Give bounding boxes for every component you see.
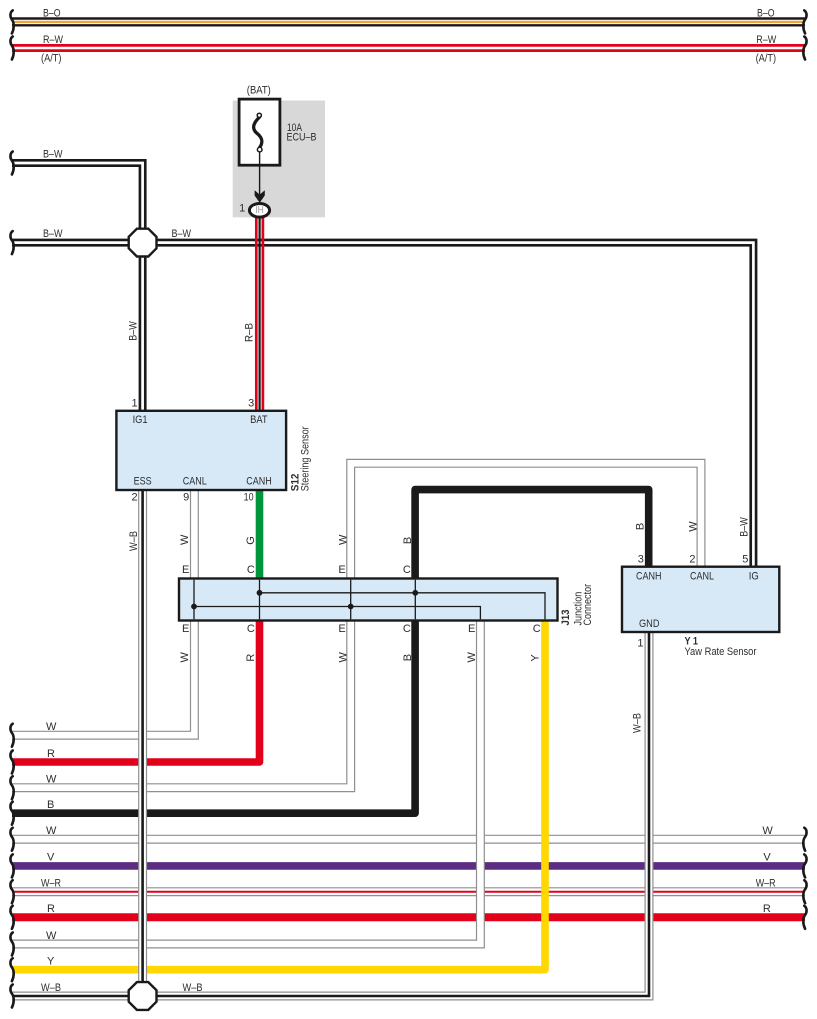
svg-text:W–B: W–B — [128, 531, 140, 551]
junction node (octagon) W-B — [129, 982, 157, 1010]
svg-text:B–W: B–W — [43, 228, 63, 240]
svg-text:B–O: B–O — [43, 7, 61, 19]
svg-text:CANH: CANH — [246, 475, 272, 487]
wire W-B bus to Y1 GND — [12, 631, 649, 996]
svg-text:B: B — [47, 799, 54, 811]
wire R bus 2 (full width) — [12, 913, 805, 921]
svg-text:V: V — [763, 852, 771, 864]
svg-text:3: 3 — [248, 398, 254, 410]
svg-text:10: 10 — [244, 491, 254, 503]
svg-text:R: R — [763, 903, 771, 915]
wire W bus 4 to J13 pin E — [12, 619, 480, 944]
junction node (octagon) B-W — [129, 229, 157, 257]
svg-text:9: 9 — [183, 491, 189, 503]
svg-text:R–W: R–W — [756, 34, 776, 46]
svg-text:C: C — [403, 564, 411, 576]
svg-text:W: W — [46, 825, 57, 837]
svg-text:R: R — [245, 654, 257, 662]
wire B-W main run to Y1 IG — [12, 243, 753, 568]
wire R-B from fuse node IH to S12 BAT — [255, 216, 258, 412]
svg-text:CANH: CANH — [636, 571, 662, 583]
fuse terminal circle top — [257, 113, 261, 117]
svg-text:G: G — [245, 536, 257, 545]
svg-text:Connector: Connector — [582, 584, 594, 626]
svg-text:C: C — [247, 564, 255, 576]
svg-text:(A/T): (A/T) — [41, 52, 62, 64]
svg-text:C: C — [247, 623, 255, 635]
svg-text:(A/T): (A/T) — [756, 52, 777, 64]
svg-text:GND: GND — [639, 618, 660, 630]
svg-text:B–W: B–W — [172, 228, 192, 240]
svg-text:2: 2 — [131, 491, 137, 503]
svg-text:B: B — [635, 523, 647, 530]
svg-text:IH: IH — [255, 205, 264, 216]
wire from fuse to node IH — [259, 152, 261, 196]
node IH oval — [249, 204, 269, 218]
svg-text:E: E — [182, 564, 189, 576]
right break bus group — [803, 828, 806, 851]
svg-text:W: W — [338, 534, 350, 545]
wire W bus 2 through J13 to Y1 CANL — [12, 463, 701, 787]
svg-text:C: C — [533, 623, 541, 635]
svg-text:W: W — [46, 774, 57, 786]
left break B-W upper — [10, 152, 13, 175]
svg-text:W: W — [179, 651, 191, 662]
wire B from J13 pin C to Y1 CANH — [415, 490, 649, 580]
svg-text:W–B: W–B — [183, 982, 203, 994]
left break B-O / R-W — [10, 10, 13, 33]
wire W-R bus (full width) — [12, 887, 805, 896]
svg-text:W–B: W–B — [41, 982, 61, 994]
right break B-O / R-W — [803, 10, 806, 33]
fuse terminal circle bottom — [257, 147, 262, 152]
J13 junction dot C2 — [412, 590, 418, 596]
svg-text:W: W — [762, 825, 773, 837]
svg-text:W: W — [179, 534, 191, 545]
left break bus group — [10, 724, 13, 747]
svg-text:1: 1 — [239, 203, 245, 215]
svg-text:W: W — [466, 651, 478, 662]
svg-text:1: 1 — [131, 398, 137, 410]
svg-text:3: 3 — [638, 553, 644, 565]
svg-text:BAT: BAT — [250, 414, 268, 426]
connector Y1 Yaw Rate Sensor box — [622, 567, 779, 632]
J13 internal pin link E2 — [350, 580, 352, 620]
fuse element S-curve — [254, 117, 262, 147]
J13 internal pin link C2 — [414, 580, 416, 620]
wire B-O bus (top) — [12, 17, 805, 26]
arrow into node IH — [255, 190, 265, 203]
svg-text:1: 1 — [637, 637, 643, 649]
svg-text:B–W: B–W — [739, 517, 751, 537]
svg-text:B–W: B–W — [128, 321, 140, 341]
svg-text:W–R: W–R — [41, 878, 61, 890]
svg-text:CANL: CANL — [690, 571, 714, 583]
gray relay-block panel behind fuse — [233, 101, 325, 218]
svg-text:B–O: B–O — [757, 7, 775, 19]
svg-text:E: E — [338, 564, 345, 576]
svg-text:Y: Y — [47, 956, 55, 968]
svg-text:2: 2 — [689, 553, 695, 565]
J13 internal pin link C1 — [259, 580, 261, 620]
svg-text:W–B: W–B — [631, 713, 643, 733]
svg-text:IG: IG — [749, 571, 759, 583]
svg-text:E: E — [338, 623, 345, 635]
svg-text:(BAT): (BAT) — [247, 85, 271, 97]
connector S12 Steering Sensor box — [116, 411, 286, 490]
J13 junction dot C1 — [257, 590, 263, 596]
left break B-W main — [10, 231, 13, 254]
svg-text:V: V — [47, 852, 55, 864]
wire Y bus to J13 pin C — [12, 619, 545, 970]
wire W from S12 CANL to J13 pin E — [190, 489, 199, 581]
svg-text:E: E — [468, 623, 475, 635]
wire W bus 1 to J13 pin E — [12, 619, 194, 735]
svg-text:B–W: B–W — [43, 149, 63, 161]
svg-text:E: E — [182, 623, 189, 635]
svg-text:W: W — [46, 930, 57, 942]
svg-text:W: W — [687, 521, 699, 532]
svg-text:R–B: R–B — [244, 323, 256, 342]
svg-text:C: C — [403, 623, 411, 635]
wire R bus to J13 pin C — [12, 619, 260, 762]
wire W-B from S12 ESS down to junction octagon — [138, 489, 147, 996]
svg-text:CANL: CANL — [183, 475, 207, 487]
svg-text:B: B — [402, 654, 414, 661]
svg-text:ECU–B: ECU–B — [287, 131, 317, 143]
svg-text:Steering Sensor: Steering Sensor — [300, 426, 312, 491]
svg-text:J13: J13 — [560, 610, 572, 626]
svg-text:IG1: IG1 — [133, 414, 148, 426]
svg-text:W: W — [338, 651, 350, 662]
svg-text:ESS: ESS — [134, 475, 152, 487]
J13 junction dot E1 — [191, 604, 197, 610]
wire V bus (full width) — [12, 862, 805, 870]
svg-text:Yaw Rate Sensor: Yaw Rate Sensor — [685, 646, 757, 658]
J13 internal bus line upper — [260, 593, 546, 620]
svg-text:R–W: R–W — [43, 34, 63, 46]
svg-text:R: R — [47, 748, 55, 760]
svg-text:Y: Y — [529, 654, 541, 662]
wire W bus 3 (full width) — [12, 835, 805, 844]
connector J13 Junction Connector box — [179, 579, 558, 621]
svg-text:5: 5 — [742, 553, 748, 565]
svg-text:R: R — [47, 903, 55, 915]
J13 internal pin link E1 — [193, 580, 195, 620]
fuse 10A ECU-B body — [239, 99, 280, 165]
svg-text:W: W — [46, 721, 57, 733]
J13 junction dot E2 — [348, 604, 354, 610]
J13 internal bus line lower — [194, 607, 480, 620]
wire R-W bus (A/T) — [12, 44, 805, 52]
wire B-W upper branch to node IH column — [12, 163, 143, 411]
svg-text:B: B — [402, 537, 414, 544]
svg-text:W–R: W–R — [756, 878, 776, 890]
wire G from S12 CANH to J13 pin C — [256, 489, 264, 581]
wire B bus to J13 pin C — [12, 619, 415, 813]
